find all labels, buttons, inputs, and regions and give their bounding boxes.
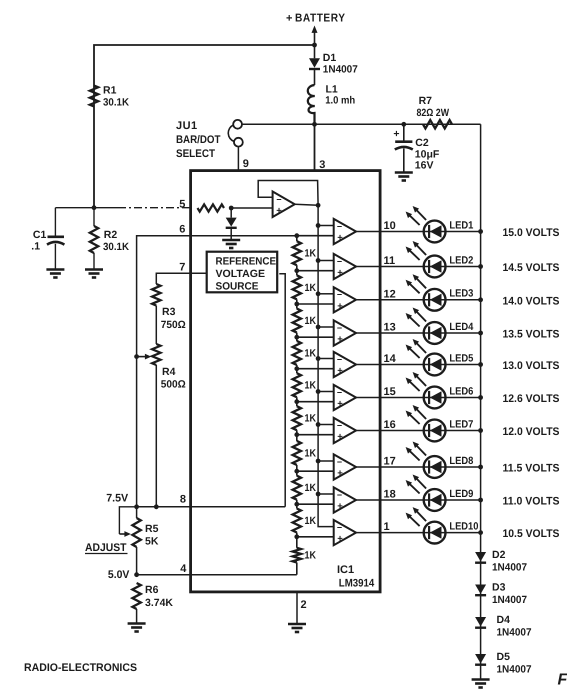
svg-text:D4: D4 — [497, 614, 511, 626]
label D1 1N4007 — [323, 52, 358, 76]
+ BATTERY terminal arrow — [312, 26, 318, 46]
label LED1 — [449, 219, 473, 231]
wire top rail from R1 to battery node — [94, 45, 315, 208]
svg-text:R2: R2 — [104, 229, 118, 241]
svg-text:30.1K: 30.1K — [103, 97, 129, 109]
svg-text:13: 13 — [384, 322, 396, 334]
svg-text:−: − — [337, 221, 342, 231]
label D3 1N4007 — [492, 582, 527, 607]
svg-text:1.0 mh: 1.0 mh — [325, 95, 355, 107]
svg-text:1K: 1K — [305, 550, 317, 562]
label 12.0 VOLTS — [503, 426, 560, 438]
diode D4 — [475, 617, 486, 628]
svg-text:1K: 1K — [305, 515, 317, 527]
svg-text:15.0 VOLTS: 15.0 VOLTS — [503, 227, 560, 239]
svg-text:FI: FI — [558, 672, 567, 689]
ground R2 — [85, 270, 103, 278]
pin 3 label — [319, 159, 325, 171]
svg-text:+: + — [337, 233, 343, 244]
svg-text:+: + — [337, 501, 343, 512]
node ladder tap 2 — [294, 268, 299, 273]
LED10 — [406, 507, 446, 543]
node L1 junction — [312, 122, 317, 127]
wire V+ rail (JU1 to LED bus corner) — [242, 123, 481, 125]
wire minus input 9 — [318, 493, 334, 495]
potentiometer R5 — [132, 507, 140, 575]
wire buffer output — [295, 204, 318, 205]
wire minus input 5 — [318, 358, 334, 360]
svg-text:750Ω: 750Ω — [161, 319, 186, 331]
svg-text:LM3914: LM3914 — [339, 578, 375, 590]
wire buffer feedback — [258, 181, 318, 206]
svg-text:12.6 VOLTS: 12.6 VOLTS — [503, 393, 560, 405]
svg-text:D3: D3 — [492, 582, 506, 594]
wire output pin 10 to bus — [356, 231, 481, 233]
pin 12 label — [384, 288, 396, 300]
jumper JU1 bar/dot select — [228, 120, 243, 171]
wire minus input 2 — [318, 260, 334, 262]
wire plus input 1 — [297, 235, 334, 237]
node LED2 bus — [478, 264, 483, 269]
node minus bus tap 6 — [316, 389, 321, 394]
svg-text:+: + — [337, 432, 343, 443]
svg-text:6: 6 — [179, 224, 185, 236]
svg-text:1N4007: 1N4007 — [497, 627, 532, 639]
ground C2 — [395, 173, 413, 181]
svg-text:RADIO-ELECTRONICS: RADIO-ELECTRONICS — [24, 662, 137, 674]
node ladder tap 9 — [294, 502, 299, 507]
label 5.0V — [108, 569, 130, 581]
resistor ladder 1K #5 — [293, 369, 301, 402]
svg-text:14.0 VOLTS: 14.0 VOLTS — [503, 295, 560, 307]
resistor ladder 1K #9 — [293, 504, 301, 537]
comparator 9 (pin 18) — [334, 487, 356, 512]
diode internal clamp — [226, 208, 237, 240]
node 7.5V R5 top — [134, 504, 139, 509]
svg-text:−: − — [337, 256, 342, 266]
label 10.5 VOLTS — [503, 528, 560, 540]
svg-text:D5: D5 — [497, 651, 511, 663]
svg-text:JU1: JU1 — [176, 120, 198, 132]
label 1K #9 — [305, 515, 317, 527]
wire minus input 7 — [318, 424, 334, 426]
svg-text:LED3: LED3 — [449, 288, 473, 300]
wire pin 8 line — [137, 506, 286, 508]
pin 4 label — [180, 563, 187, 575]
svg-text:BATTERY: BATTERY — [295, 13, 346, 25]
node 5.0V — [134, 572, 139, 577]
node ladder tap 5 — [294, 366, 299, 371]
wire plus input 10 — [297, 536, 334, 538]
LED8 — [406, 442, 446, 478]
svg-text:+: + — [337, 301, 343, 312]
svg-text:1N4007: 1N4007 — [323, 64, 358, 76]
svg-text:R4: R4 — [162, 366, 176, 378]
svg-text:+: + — [393, 128, 399, 140]
op-amp buffer — [273, 192, 295, 218]
svg-text:13.0 VOLTS: 13.0 VOLTS — [503, 360, 560, 372]
label LED2 — [449, 254, 473, 266]
LED2 — [406, 241, 446, 277]
comparator 6 (pin 15) — [334, 385, 356, 410]
node LED1 bus — [478, 229, 483, 234]
label C1 .1 — [31, 229, 46, 253]
label 1K #2 — [305, 282, 317, 294]
wire output pin 17 to bus — [356, 466, 481, 468]
svg-text:−: − — [337, 457, 342, 467]
svg-text:LED2: LED2 — [449, 254, 473, 266]
svg-text:12.0 VOLTS: 12.0 VOLTS — [503, 426, 560, 438]
node battery junction — [312, 43, 317, 48]
ground C1 — [46, 270, 64, 278]
wire minus input 4 — [318, 326, 334, 328]
wire pin 3 drop — [314, 124, 316, 170]
label JU1 BAR/DOT SELECT — [176, 120, 221, 160]
comparator 3 (pin 12) — [334, 287, 356, 312]
svg-text:10.5 VOLTS: 10.5 VOLTS — [503, 528, 560, 540]
resistor ladder 1K #2 — [293, 271, 301, 304]
label LED3 — [449, 288, 473, 300]
label IC1 LM3914 — [337, 564, 375, 590]
comparator 10 (pin 1) — [334, 520, 356, 545]
label 1K #7 — [305, 447, 317, 459]
R4 wiper arrow — [134, 354, 151, 360]
ground pin 2 — [288, 624, 306, 632]
svg-text:3: 3 — [319, 159, 325, 171]
label 14.5 VOLTS — [503, 262, 560, 274]
label LED8 — [449, 455, 473, 467]
ground internal diode — [222, 240, 240, 248]
ground diode chain — [472, 680, 490, 688]
label 7.5V — [106, 493, 129, 505]
node LED5 bus — [478, 362, 483, 367]
svg-text:−: − — [337, 323, 342, 333]
svg-text:LED4: LED4 — [449, 321, 473, 333]
LED6 — [406, 372, 446, 408]
node ladder top pin6 — [294, 233, 299, 238]
label D4 1N4007 — [497, 614, 532, 639]
pin 17 label — [384, 456, 396, 468]
svg-text:R7: R7 — [419, 95, 433, 107]
label R4 500ohm — [161, 366, 186, 391]
potentiometer R4 — [152, 344, 160, 507]
resistor ladder 1K #8 — [293, 471, 301, 504]
capacitor C1 — [47, 237, 64, 269]
svg-text:1N4007: 1N4007 — [492, 594, 527, 606]
svg-text:+: + — [337, 366, 343, 377]
pin 1 label — [384, 521, 390, 533]
svg-text:30.1K: 30.1K — [103, 241, 129, 253]
label D5 1N4007 — [497, 651, 532, 676]
svg-text:1N4007: 1N4007 — [497, 664, 532, 676]
label 1K #6 — [305, 413, 317, 425]
svg-text:SELECT: SELECT — [176, 148, 215, 160]
wire pin 7 line — [156, 273, 206, 284]
node LED10 bus — [478, 530, 483, 535]
label 1K #8 — [305, 482, 317, 494]
svg-text:1K: 1K — [305, 282, 317, 294]
diode D2 — [475, 552, 486, 563]
pin 5 label — [179, 198, 185, 210]
svg-text:+: + — [286, 13, 292, 25]
svg-text:10: 10 — [384, 220, 396, 232]
label LED10 — [449, 520, 478, 532]
svg-text:18: 18 — [384, 489, 396, 501]
svg-text:11.0 VOLTS: 11.0 VOLTS — [503, 496, 560, 508]
node LED9 bus — [478, 498, 483, 503]
svg-text:LED6: LED6 — [449, 385, 473, 397]
comparator 8 (pin 17) — [334, 454, 356, 479]
label L1 1.0 mh — [325, 84, 355, 107]
svg-text:D2: D2 — [492, 549, 506, 561]
diode D5 — [475, 654, 486, 665]
wire output pin 11 to bus — [356, 266, 481, 268]
node minus bus tap 1 — [316, 223, 321, 228]
svg-text:LED1: LED1 — [449, 219, 473, 231]
node LED8 bus — [478, 465, 483, 470]
pin 6 label — [179, 224, 185, 236]
diode D1 — [309, 45, 320, 85]
LED4 — [406, 308, 446, 344]
label 13.0 VOLTS — [503, 360, 560, 372]
svg-text:+: + — [337, 268, 343, 279]
pin 7 label — [179, 261, 185, 273]
wire comparator minus bus — [318, 205, 334, 526]
label 1K #4 — [305, 347, 317, 359]
label LED6 — [449, 385, 473, 397]
svg-text:C1: C1 — [33, 229, 47, 241]
wire plus input 5 — [297, 368, 334, 370]
svg-text:2: 2 — [301, 599, 307, 611]
wire plus input 7 — [297, 434, 334, 436]
svg-text:1K: 1K — [305, 447, 317, 459]
svg-text:LED5: LED5 — [449, 352, 473, 364]
wire output pin 1 to bus — [356, 532, 481, 534]
svg-text:1K: 1K — [305, 347, 317, 359]
label 13.5 VOLTS — [503, 329, 560, 341]
label RADIO-ELECTRONICS — [24, 662, 137, 674]
resistor internal signal — [198, 204, 225, 211]
node pin5/R1/R2 — [92, 205, 97, 210]
label 1K #1 — [305, 248, 317, 260]
label 12.6 VOLTS — [503, 393, 560, 405]
node minus bus tap 9 — [316, 492, 321, 497]
LED5 — [406, 339, 446, 375]
svg-text:.1: .1 — [31, 241, 40, 253]
svg-text:1K: 1K — [305, 315, 317, 327]
svg-text:R3: R3 — [162, 306, 176, 318]
label R7 82ohm 2W — [417, 95, 450, 119]
svg-text:16: 16 — [384, 419, 396, 431]
comparator 4 (pin 13) — [334, 320, 356, 345]
wire output pin 12 to bus — [356, 299, 481, 301]
svg-text:−: − — [276, 194, 281, 204]
wire minus input 8 — [318, 460, 334, 462]
label R3 750ohm — [161, 306, 186, 331]
svg-text:R6: R6 — [145, 584, 159, 596]
resistor R1 — [90, 86, 98, 107]
resistor ladder 1K #1 — [293, 236, 301, 271]
node R3R4 bottom — [154, 504, 159, 509]
svg-text:15: 15 — [384, 386, 396, 398]
label 1K #5 — [305, 380, 317, 392]
label LED4 — [449, 321, 473, 333]
node LED4 bus — [478, 331, 483, 336]
node ladder tap 4 — [294, 335, 299, 340]
label FIG (cut off) — [558, 672, 567, 689]
pin 2 label — [301, 599, 307, 611]
comparator 2 (pin 11) — [334, 254, 356, 279]
svg-text:−: − — [337, 420, 342, 430]
node ladder tap 7 — [294, 432, 299, 437]
svg-text:500Ω: 500Ω — [161, 379, 186, 391]
pin 8 label — [180, 493, 186, 505]
resistor R2 — [90, 208, 98, 269]
svg-text:1N4007: 1N4007 — [492, 562, 527, 574]
pin 10 label — [384, 220, 396, 232]
pin 15 label — [384, 386, 396, 398]
svg-text:+: + — [337, 399, 343, 410]
svg-text:IC1: IC1 — [337, 564, 354, 576]
svg-text:SOURCE: SOURCE — [216, 281, 259, 293]
svg-text:9: 9 — [243, 158, 249, 170]
resistor R7 — [423, 120, 452, 128]
node minus bus tap 8 — [316, 459, 321, 464]
label ADJUST — [85, 542, 128, 554]
wire pin5 to buffer — [231, 207, 272, 209]
pin 11 label — [384, 255, 396, 267]
svg-text:7.5V: 7.5V — [106, 493, 129, 505]
label LED5 — [449, 352, 473, 364]
node minus bus tap 5 — [316, 356, 321, 361]
svg-text:13.5 VOLTS: 13.5 VOLTS — [503, 329, 560, 341]
label 11.5 VOLTS — [503, 463, 560, 475]
svg-text:D1: D1 — [323, 52, 337, 64]
svg-text:+: + — [337, 334, 343, 345]
LED3 — [406, 274, 446, 310]
label R2 30.1K — [103, 229, 129, 253]
node buffer output — [316, 203, 321, 208]
resistor ladder 1K #4 — [293, 337, 301, 369]
wire plus input 6 — [297, 401, 334, 403]
label 1K #10 — [305, 550, 317, 562]
svg-text:LED10: LED10 — [449, 520, 478, 532]
resistor ladder 1K #7 — [293, 435, 301, 472]
svg-text:11.5 VOLTS: 11.5 VOLTS — [503, 463, 560, 475]
pin 14 label — [384, 353, 397, 365]
label 15.0 VOLTS — [503, 227, 560, 239]
wire ref-adj riser — [279, 274, 285, 507]
LED9 — [406, 475, 446, 511]
node minus bus tap 3 — [316, 291, 321, 296]
svg-text:R1: R1 — [103, 85, 117, 97]
svg-text:4: 4 — [180, 563, 187, 575]
svg-text:−: − — [337, 387, 342, 397]
wire plus input 4 — [297, 336, 334, 338]
svg-text:14.5 VOLTS: 14.5 VOLTS — [503, 262, 560, 274]
svg-text:16V: 16V — [415, 160, 434, 172]
wire pin 6 line — [137, 236, 297, 507]
resistor R3 — [152, 284, 160, 344]
svg-text:5: 5 — [179, 198, 185, 210]
svg-text:8: 8 — [180, 493, 186, 505]
svg-text:1K: 1K — [305, 248, 317, 260]
wire pin 4 line — [137, 574, 297, 576]
label REFERENCE VOLTAGE SOURCE — [216, 256, 277, 293]
node minus bus tap 7 — [316, 422, 321, 427]
node internal diode tap — [229, 206, 234, 211]
svg-text:3.74K: 3.74K — [145, 597, 173, 609]
wire minus input 6 — [318, 391, 334, 393]
wire pin 5 line — [55, 208, 190, 236]
svg-text:R5: R5 — [145, 523, 159, 535]
node minus bus tap 2 — [316, 258, 321, 263]
node ladder tap 8 — [294, 469, 299, 474]
capacitor C2 — [393, 124, 412, 172]
comparator 7 (pin 16) — [334, 418, 356, 443]
resistor ladder 1K #10 bottom — [293, 537, 301, 575]
label R6 3.74K — [145, 584, 173, 609]
node ladder tap 6 — [294, 399, 299, 404]
svg-text:ADJUST: ADJUST — [85, 542, 127, 554]
LED1 — [406, 206, 446, 242]
svg-text:REFERENCE: REFERENCE — [216, 256, 277, 268]
node LED6 bus — [478, 395, 483, 400]
svg-text:1K: 1K — [305, 482, 317, 494]
label 1K #3 — [305, 315, 317, 327]
svg-text:5K: 5K — [145, 536, 159, 548]
node LED7 bus — [478, 428, 483, 433]
label 11.0 VOLTS — [503, 496, 560, 508]
label + BATTERY — [286, 13, 346, 25]
svg-text:BAR/DOT: BAR/DOT — [176, 134, 221, 146]
comparator 1 (pin 10) — [334, 219, 356, 244]
node ladder tap 3 — [294, 302, 299, 307]
IC outline LM3914 — [191, 171, 381, 592]
svg-text:5.0V: 5.0V — [108, 569, 130, 581]
resistor ladder 1K #6 — [293, 402, 301, 435]
svg-text:−: − — [337, 290, 342, 300]
svg-text:LED9: LED9 — [449, 488, 473, 500]
svg-text:C2: C2 — [415, 137, 429, 149]
wire output pin 16 to bus — [356, 430, 481, 432]
wire plus input 8 — [297, 470, 334, 472]
svg-text:LED8: LED8 — [449, 455, 473, 467]
wire output pin 18 to bus — [356, 499, 481, 501]
label R1 30.1K — [103, 85, 129, 109]
diode D3 — [475, 585, 486, 596]
ground R6 — [128, 624, 146, 632]
wire output pin 15 to bus — [356, 397, 481, 399]
node LED3 bus — [478, 297, 483, 302]
reference voltage source box — [207, 252, 278, 293]
svg-text:LED7: LED7 — [449, 418, 473, 430]
svg-text:+: + — [337, 534, 343, 545]
LED7 — [406, 405, 446, 441]
comparator 5 (pin 14) — [334, 352, 356, 377]
label LED7 — [449, 418, 473, 430]
svg-text:7: 7 — [179, 261, 185, 273]
svg-text:+: + — [337, 468, 343, 479]
svg-text:−: − — [337, 522, 342, 532]
label R5 5K — [145, 523, 159, 548]
pin 9 label — [243, 158, 249, 170]
node C2 junction — [401, 122, 406, 127]
wire plus input 2 — [297, 270, 334, 272]
svg-text:1K: 1K — [305, 413, 317, 425]
resistor ladder 1K #3 — [293, 304, 301, 337]
resistor R6 — [132, 583, 140, 623]
